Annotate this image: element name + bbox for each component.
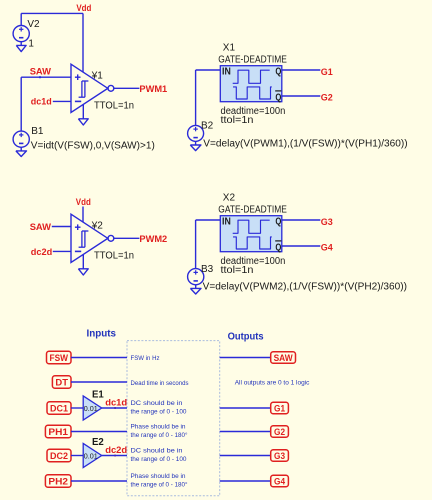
svg-text:Q: Q xyxy=(275,67,281,78)
svg-text:SAW: SAW xyxy=(30,222,51,233)
svg-text:1: 1 xyxy=(28,38,34,49)
svg-text:V=idt(V(FSW),0,V(SAW)>1): V=idt(V(FSW),0,V(SAW)>1) xyxy=(31,141,155,152)
svg-text:the range of 0 - 180°: the range of 0 - 180° xyxy=(131,481,188,489)
svg-text:SAW: SAW xyxy=(30,67,51,78)
svg-text:V=delay(V(PWM2),(1/V(FSW))*(V(: V=delay(V(PWM2),(1/V(FSW))*(V(PH2)/360)) xyxy=(203,282,407,293)
svg-text:dc1d: dc1d xyxy=(31,97,52,108)
svg-text:X1: X1 xyxy=(223,43,236,54)
svg-text:DC1: DC1 xyxy=(50,403,69,414)
svg-text:SAW: SAW xyxy=(274,353,293,364)
svg-text:B2: B2 xyxy=(201,121,214,132)
svg-text:FSW in Hz: FSW in Hz xyxy=(131,355,160,362)
svg-text:IN: IN xyxy=(222,217,231,228)
svg-text:Phase should be in: Phase should be in xyxy=(131,473,186,480)
svg-text:G2: G2 xyxy=(274,427,285,438)
svg-text:Inputs: Inputs xyxy=(87,327,117,339)
svg-text:Vdd: Vdd xyxy=(76,3,91,14)
svg-text:dc2d: dc2d xyxy=(105,445,127,456)
svg-text:FSW: FSW xyxy=(50,353,69,364)
svg-text:DC should be in: DC should be in xyxy=(131,400,183,407)
svg-text:dc2d: dc2d xyxy=(31,247,53,258)
svg-text:dc1d: dc1d xyxy=(105,397,127,408)
svg-text:V2: V2 xyxy=(27,19,40,30)
svg-text:PH1: PH1 xyxy=(48,427,68,438)
svg-text:G1: G1 xyxy=(321,67,334,78)
svg-text:TTOL=1n: TTOL=1n xyxy=(94,100,134,111)
svg-text:TTOL=1n: TTOL=1n xyxy=(94,250,134,261)
svg-text:0.01: 0.01 xyxy=(84,452,98,461)
svg-text:the range of 0 - 100: the range of 0 - 100 xyxy=(131,456,187,463)
svg-text:X2: X2 xyxy=(223,193,236,204)
svg-text:G3: G3 xyxy=(274,451,285,462)
svg-text:ttol=1n: ttol=1n xyxy=(221,265,254,276)
svg-text:G3: G3 xyxy=(321,217,333,228)
svg-text:DC should be in: DC should be in xyxy=(131,448,183,455)
svg-text:B1: B1 xyxy=(31,126,44,137)
svg-text:¥2: ¥2 xyxy=(91,221,104,232)
svg-text:PWM2: PWM2 xyxy=(139,234,167,245)
svg-text:DT: DT xyxy=(55,377,68,388)
svg-text:0.01: 0.01 xyxy=(84,404,98,413)
svg-text:the range of 0 - 180°: the range of 0 - 180° xyxy=(131,431,188,439)
svg-text:Dead time in seconds: Dead time in seconds xyxy=(131,380,190,387)
svg-text:Q: Q xyxy=(275,92,281,103)
svg-text:Q: Q xyxy=(275,217,281,228)
svg-text:B3: B3 xyxy=(201,264,214,275)
svg-text:Phase should be in: Phase should be in xyxy=(131,424,186,431)
svg-text:V=delay(V(PWM1),(1/V(FSW))*(V(: V=delay(V(PWM1),(1/V(FSW))*(V(PH1)/360)) xyxy=(203,138,407,149)
svg-text:ttol=1n: ttol=1n xyxy=(221,115,254,126)
svg-text:PH2: PH2 xyxy=(48,476,68,487)
svg-text:E1: E1 xyxy=(92,389,104,401)
svg-text:IN: IN xyxy=(222,67,231,78)
svg-text:G2: G2 xyxy=(321,92,333,103)
svg-text:Q: Q xyxy=(275,242,281,253)
svg-text:PWM1: PWM1 xyxy=(139,84,167,95)
svg-text:G1: G1 xyxy=(274,403,286,414)
svg-text:GATE-DEADTIME: GATE-DEADTIME xyxy=(218,205,287,216)
svg-text:the range of 0 - 100: the range of 0 - 100 xyxy=(131,409,187,416)
svg-text:GATE-DEADTIME: GATE-DEADTIME xyxy=(218,55,287,66)
svg-text:Outputs: Outputs xyxy=(228,330,264,342)
svg-text:DC2: DC2 xyxy=(50,451,68,462)
svg-text:All outputs are 0 to 1 logic: All outputs are 0 to 1 logic xyxy=(235,380,310,387)
svg-text:¥1: ¥1 xyxy=(91,71,104,82)
svg-text:G4: G4 xyxy=(321,242,334,253)
svg-text:E2: E2 xyxy=(92,436,104,448)
svg-text:G4: G4 xyxy=(274,476,286,487)
